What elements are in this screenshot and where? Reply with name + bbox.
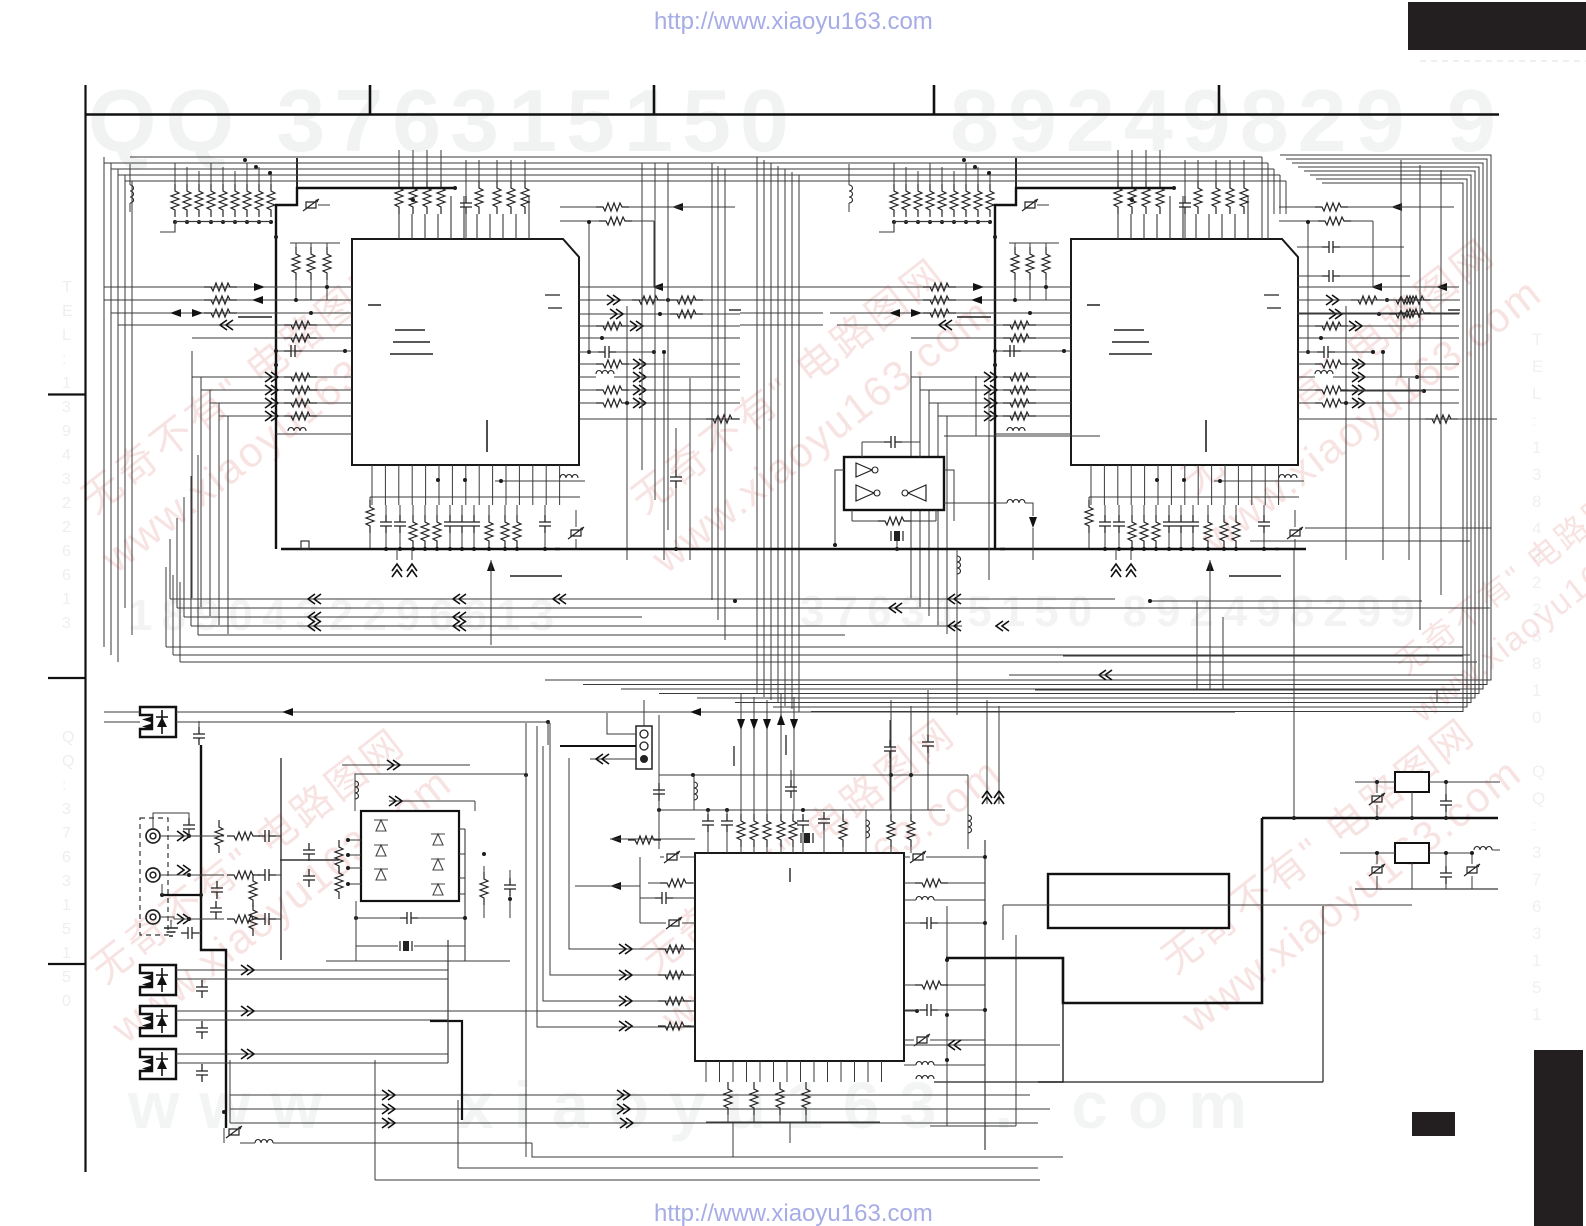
capacitor C-u8b	[303, 869, 315, 887]
svg-text:Q: Q	[62, 753, 74, 770]
resistor R-u5r2	[915, 981, 948, 989]
capacitor C-u8r	[504, 878, 516, 896]
wire into U1 left y300	[104, 299, 352, 301]
svg-text:6: 6	[1532, 897, 1541, 916]
middle bus group A (y 596-640)	[170, 598, 1115, 600]
resistor array RC4	[521, 181, 529, 214]
wire	[632, 220, 654, 222]
U5 right tie vertical	[984, 840, 986, 1150]
svg-text:3: 3	[1532, 843, 1541, 862]
resistor Rdec	[366, 500, 374, 533]
top horizontal bus lines	[130, 156, 1262, 158]
svg-text:1: 1	[62, 375, 71, 392]
svg-text:L: L	[1532, 384, 1541, 403]
capacitor CR1	[1322, 241, 1340, 253]
left bus verticals	[103, 157, 105, 647]
middle bus group B (y 645-662)	[166, 646, 1463, 648]
bus wire wrap	[697, 171, 1475, 698]
bus wire wrap	[621, 163, 1483, 689]
resistor R-u5l4	[658, 971, 691, 979]
frame: top rule	[85, 113, 1499, 116]
svg-text:Q: Q	[1532, 762, 1545, 781]
capacitor C-rca3	[210, 901, 222, 919]
up arrow A	[487, 560, 495, 571]
thick rail	[1262, 817, 1498, 820]
svg-text:0: 0	[1532, 708, 1541, 727]
wire	[569, 758, 695, 949]
connector CN1	[636, 726, 652, 769]
IC U4 (inverter pack)	[844, 457, 944, 510]
resistor R-line3	[227, 915, 260, 923]
IC U5 body	[695, 853, 904, 1061]
verticals down from bus to U5 area	[986, 700, 988, 804]
regulator U7	[1395, 843, 1429, 863]
U4 gate 2	[856, 485, 874, 501]
svg-text:7: 7	[62, 825, 71, 842]
big cap between ICs	[670, 470, 682, 488]
svg-text:5: 5	[62, 969, 71, 986]
svg-text:E: E	[62, 303, 73, 320]
rca jack	[146, 829, 160, 843]
svg-text:6: 6	[62, 849, 71, 866]
capacitor C-rcatop	[183, 818, 195, 836]
rca arrows	[177, 831, 190, 841]
resistor R-u8r	[480, 872, 488, 905]
regulator U6	[1395, 772, 1429, 792]
vertical x627	[626, 306, 628, 560]
inductor L-b1082	[916, 1076, 934, 1080]
wire	[1293, 550, 1295, 818]
rca jack group dashed box	[140, 818, 168, 935]
U8 bottom crystal filter	[400, 941, 412, 951]
black title block top right	[1408, 2, 1586, 50]
wire	[389, 800, 475, 802]
vertical x589	[588, 222, 590, 352]
capacitor C-u8a	[303, 843, 315, 861]
U8 gates left	[374, 820, 388, 831]
wire into U1 left y338	[192, 337, 352, 339]
svg-text::: :	[62, 777, 66, 794]
resistor R-line2	[227, 871, 260, 879]
ground bus thick	[281, 548, 560, 551]
inductor bottom left	[255, 1140, 273, 1144]
svg-text::: :	[1532, 816, 1537, 835]
U1 bottom pins	[371, 465, 373, 505]
svg-text:1: 1	[1532, 951, 1541, 970]
wire	[1063, 655, 1463, 657]
arrow	[1436, 283, 1447, 291]
svg-text:Q: Q	[62, 729, 74, 746]
capacitor C-u5m	[785, 780, 797, 798]
display rect	[1048, 874, 1229, 928]
resistor R-u5b	[750, 1082, 758, 1115]
resistor R-u5l6	[658, 1022, 691, 1030]
PC2-4 output wires	[176, 969, 448, 971]
resistor array RA (9)	[171, 184, 179, 217]
resistor array RB3	[423, 181, 431, 214]
optocouplers PC2-4	[140, 965, 176, 995]
wire	[458, 1167, 1038, 1169]
wire tie	[464, 829, 466, 961]
wire	[355, 901, 357, 961]
resistor array RB4	[437, 181, 445, 214]
drops into cluster	[658, 715, 660, 775]
wire	[1038, 1003, 1063, 1082]
wire	[525, 723, 527, 1157]
arrow left on line	[672, 203, 683, 211]
IC U1 body	[352, 239, 579, 465]
underline mark	[510, 575, 562, 577]
wire	[629, 206, 735, 208]
U4 crystal	[891, 531, 903, 541]
svg-text::: :	[1532, 411, 1537, 430]
svg-text:7: 7	[1532, 870, 1541, 889]
thick elbow	[430, 1021, 462, 1120]
svg-text:1: 1	[1532, 1005, 1541, 1024]
top bus right corners into right stack	[1261, 157, 1263, 239]
svg-text:3: 3	[1532, 924, 1541, 943]
frame: top tick	[369, 85, 372, 114]
top bus dots	[243, 158, 247, 162]
frame: left tick	[48, 677, 85, 679]
svg-text:http://www.xiaoyu163.com: http://www.xiaoyu163.com	[654, 8, 933, 35]
frame: left rule	[84, 85, 86, 1172]
resistor RR2	[1398, 309, 1431, 317]
up arrows below ground	[392, 564, 402, 577]
vertical x947	[946, 906, 948, 1126]
IC U8 (isolator) body	[361, 811, 459, 901]
rca line 1	[161, 835, 224, 837]
ground near rca	[164, 928, 178, 936]
capacitor C-pc3	[196, 1021, 208, 1039]
capacitor C-rca2	[211, 881, 223, 899]
inductor L-u5	[693, 775, 695, 810]
frame: top tick	[653, 85, 656, 114]
resistor R-r1	[596, 203, 629, 211]
vertical x664	[663, 352, 665, 560]
rca top wire and cap	[153, 813, 189, 828]
svg-text:3: 3	[1532, 465, 1541, 484]
PC1 wires	[176, 711, 1235, 713]
inductor L-reg	[1474, 847, 1492, 851]
resistor R-r2	[599, 217, 632, 225]
capacitor C-line1	[258, 830, 276, 842]
svg-text:T: T	[62, 279, 72, 296]
PC1 cap	[193, 727, 205, 745]
bus wire wrap	[583, 159, 1487, 685]
frame: top tick	[1218, 85, 1221, 114]
svg-text:1890432296613: 1890432296613	[128, 591, 563, 640]
series resistors y300	[579, 299, 740, 301]
second top bus (over U2)	[849, 156, 1262, 158]
svg-text:3: 3	[62, 615, 71, 632]
frame: left tick	[48, 393, 85, 395]
thick wire from PC1	[201, 745, 226, 1128]
capacitor C-gnd	[181, 927, 199, 939]
svg-text:6: 6	[62, 567, 71, 584]
svg-text:1: 1	[1532, 438, 1541, 457]
resistor R-r403	[596, 399, 629, 407]
svg-text:2: 2	[62, 519, 71, 536]
black side block bottom right	[1534, 1050, 1583, 1226]
inductor L-u5r2	[916, 1062, 934, 1066]
rca jack	[146, 868, 160, 882]
U5 inner mark	[789, 868, 791, 882]
capacitor C-u5l	[658, 775, 660, 849]
U8 bottom cap	[400, 912, 418, 924]
svg-text:E: E	[1532, 357, 1543, 376]
resistor R-u5l3	[658, 945, 691, 953]
svg-text::: :	[62, 351, 66, 368]
wire	[537, 726, 695, 1027]
inductor L-u4b	[1007, 500, 1025, 504]
capacitor C-reg2b	[1440, 866, 1452, 884]
svg-text:1: 1	[62, 591, 71, 608]
vertical with inductor x957	[956, 549, 958, 715]
wire y905	[1003, 904, 1412, 906]
IC U1 inner pin-1 marks	[368, 305, 433, 354]
U4 gate 3	[908, 485, 926, 501]
svg-text:4: 4	[62, 447, 71, 464]
crystal X2	[801, 833, 813, 843]
resistor R-u5b	[802, 1082, 810, 1115]
resistor RR1	[1398, 296, 1431, 304]
svg-text:1: 1	[1532, 681, 1541, 700]
U5 bottom pins	[705, 1061, 707, 1082]
capacitor CR2	[1322, 270, 1340, 282]
svg-text:8: 8	[1532, 654, 1541, 673]
svg-text:3: 3	[62, 801, 71, 818]
trim cap U5-r2	[914, 1034, 930, 1046]
right horizontals	[1297, 418, 1497, 420]
wire	[1009, 674, 1463, 676]
capacitor C-top	[460, 196, 472, 214]
cap C-reg2a	[1369, 864, 1385, 876]
resistor R-u8b	[335, 866, 343, 899]
wire y338	[579, 337, 740, 339]
trim cap U5-r1	[910, 851, 926, 863]
thick caps around crystal	[797, 814, 809, 832]
wire into U1 left y325	[118, 324, 352, 326]
svg-text:1: 1	[62, 945, 71, 962]
U5 left tie vertical	[639, 857, 641, 923]
faint dashed line under title block	[1420, 60, 1586, 62]
svg-text:3: 3	[62, 471, 71, 488]
resistor R-u5lead	[628, 836, 661, 844]
bus wire wrap	[735, 175, 1471, 703]
trim cap bottom left	[226, 1126, 242, 1138]
resistor R-rca3	[249, 903, 257, 936]
svg-text:Q: Q	[1532, 789, 1545, 808]
IC U1 inner bottom mark	[486, 420, 488, 452]
capacitor C-mid	[922, 735, 934, 753]
resistor R-u8a	[335, 840, 343, 873]
svg-text:www . xiaoyu163 . com: www . xiaoyu163 . com	[127, 1068, 1267, 1142]
U8 left pins	[348, 839, 361, 841]
left drop wires	[191, 351, 193, 598]
inductor L-dec	[495, 480, 585, 482]
resistor R-r419	[580, 418, 740, 420]
vertical drops to DAC with arrows	[740, 694, 742, 810]
resistor R-u5b	[724, 1082, 732, 1115]
IC U2 channel copy	[823, 150, 1460, 645]
U5 bottom pin drops	[732, 1122, 734, 1157]
series resistor y314	[579, 313, 740, 315]
frame: left tick	[48, 963, 85, 965]
res lines into U1 left 377-416	[192, 376, 352, 378]
inductor L-l434	[276, 433, 352, 435]
decoupling caps/resistors row	[380, 515, 392, 533]
resistor R-u5r1	[915, 879, 948, 887]
resistor R-r364	[596, 360, 629, 368]
bus wire wrap	[659, 167, 1479, 694]
dash mark	[729, 309, 741, 311]
thick ground link	[162, 894, 201, 896]
trim cap CT1	[303, 199, 319, 211]
resistors RL1-3	[292, 247, 300, 280]
svg-text:http://www.xiaoyu163.com: http://www.xiaoyu163.com	[654, 1200, 933, 1226]
trim cap U5-l1	[664, 851, 680, 863]
bus wire wrap	[545, 155, 1491, 680]
U4 top cap	[884, 436, 902, 448]
verticals between IC1 and center	[641, 163, 643, 470]
capacitor C-u5r2	[920, 1004, 938, 1016]
thick rail path	[946, 818, 1262, 1003]
svg-text:T: T	[1532, 330, 1542, 349]
bus wire wrap	[773, 179, 1467, 707]
extra right verticals	[1400, 160, 1402, 377]
between-IC horizontals	[740, 286, 823, 288]
resistor R-line1	[227, 832, 260, 840]
cap C-reg2c	[1464, 864, 1480, 876]
thick supply wire	[276, 188, 455, 549]
long bottom-left wires	[230, 1094, 1030, 1096]
wire	[375, 1179, 1040, 1181]
thin verticals left of U2	[975, 376, 977, 436]
resistor R-r390	[596, 386, 629, 394]
capacitor C-u5r1	[920, 917, 938, 929]
svg-text:2: 2	[62, 495, 71, 512]
inductor L-clu1	[865, 810, 867, 853]
resistor R-u5l1	[660, 879, 693, 887]
wire	[550, 723, 695, 975]
resistor array RC3	[507, 181, 515, 214]
wire	[342, 764, 470, 766]
RA bottom tie	[175, 221, 271, 223]
rca line 2	[161, 874, 224, 876]
svg-text:3: 3	[62, 399, 71, 416]
small black block bottom right	[1412, 1112, 1455, 1136]
bus wire wrap	[811, 183, 1463, 712]
wires out right of IC	[579, 286, 740, 288]
svg-text:0: 0	[62, 993, 71, 1010]
frame: top tick	[933, 85, 936, 114]
cluster tie above U5	[659, 809, 945, 811]
capacitor C-line3	[258, 913, 276, 925]
inductor right of U4	[944, 435, 1100, 437]
cap C-reg1a	[1369, 793, 1385, 805]
capacitor C-l351	[276, 350, 352, 352]
inductor L-clu2	[967, 775, 969, 849]
label dash	[238, 316, 272, 318]
U8 right pins	[459, 828, 465, 830]
capacitor C-u5r	[884, 740, 896, 758]
U4 side wires	[835, 470, 844, 545]
optocoupler PC1	[140, 707, 176, 737]
watermark: pink diagonal stamps	[57, 243, 450, 582]
vertical x1016	[1015, 935, 1017, 1126]
vertical x690	[689, 378, 691, 560]
wire	[1043, 689, 1437, 703]
resistor R-rca2	[249, 874, 257, 907]
resistor R-u5l5	[658, 997, 691, 1005]
thick vertical tie x224 (merged above)	[222, 1110, 226, 1114]
wire	[532, 1143, 1063, 1157]
wire	[326, 960, 510, 962]
wire	[543, 746, 695, 1001]
inductor L-r377	[596, 371, 614, 375]
svg-text:9: 9	[62, 423, 71, 440]
resistor array RC2	[493, 181, 501, 214]
wire	[1150, 600, 1422, 602]
svg-text:3: 3	[62, 873, 71, 890]
wire	[355, 774, 526, 811]
inductor L-u5r	[916, 897, 934, 901]
wire y326	[579, 325, 740, 327]
resistor array RC1	[475, 181, 483, 214]
wire	[1035, 689, 1460, 691]
inductor L-u8	[355, 781, 359, 799]
middle vertical channel wires	[711, 163, 713, 600]
svg-text:5: 5	[1532, 978, 1541, 997]
capacitor C-line2	[258, 869, 276, 881]
vertical x654	[653, 221, 655, 287]
svg-text:L: L	[62, 327, 71, 344]
U4 below resistor	[878, 517, 911, 525]
svg-text:QQ 376315150: QQ 376315150	[88, 71, 798, 170]
U8 gates right	[431, 834, 445, 845]
arrow into IC3 area	[610, 882, 621, 890]
rca jack	[146, 910, 160, 924]
CN1 leads	[607, 713, 636, 734]
capacitor C-r352	[598, 346, 616, 358]
thick ground line middle	[555, 548, 1005, 551]
arrow	[610, 835, 621, 843]
pin marks	[733, 746, 735, 766]
right mid verticals	[1196, 601, 1198, 690]
wire into U1 left y287	[104, 286, 352, 288]
resistor R-u5b	[776, 1082, 784, 1115]
wire into U1 left y313	[111, 312, 352, 314]
wire	[1322, 906, 1324, 1082]
U4 gate 1	[856, 463, 872, 477]
capacitor C-pc4	[196, 1064, 208, 1082]
rca line 3	[161, 917, 174, 919]
svg-text:8: 8	[1532, 492, 1541, 511]
svg-text:5: 5	[62, 921, 71, 938]
capacitor C-u5l2	[655, 892, 673, 904]
resistor array RB2	[409, 181, 417, 214]
capacitor C-reg1b	[1440, 794, 1452, 812]
vertical tie right of rca	[280, 758, 282, 960]
decoupling tie line	[370, 496, 580, 498]
resistor R-rca1	[215, 820, 223, 853]
svg-text:6: 6	[62, 543, 71, 560]
resistor array RB1	[395, 181, 403, 214]
inductor L-top	[130, 185, 134, 203]
svg-text:1: 1	[62, 897, 71, 914]
trim cap U5-l2	[666, 917, 682, 929]
